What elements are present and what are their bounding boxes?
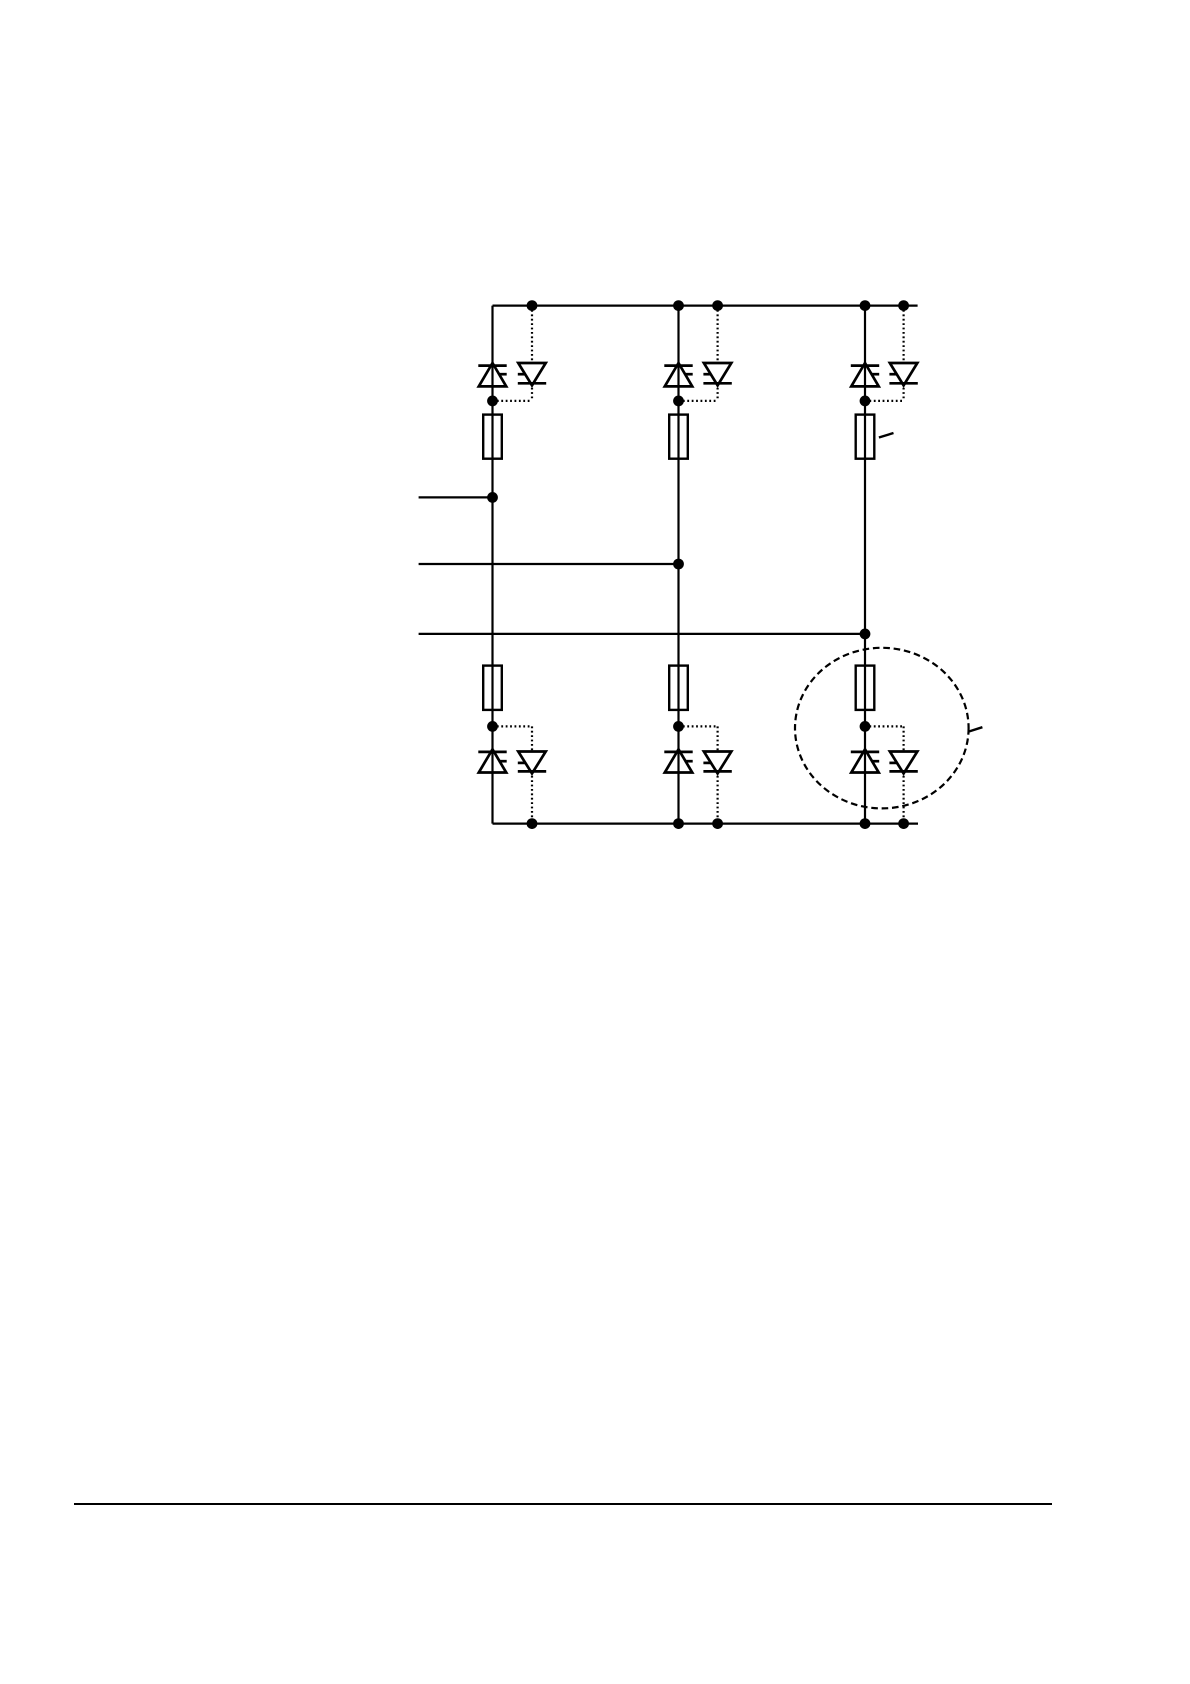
wire: dotted link V6R cathode to bottom bus (716, 771, 718, 823)
wire: AC phase input L1 (419, 496, 493, 498)
fuse F32 (lower arm leg 3) (856, 666, 875, 710)
node: bottom bus dot at reverse branch V4R (527, 818, 538, 829)
node: bottom bus dot at leg 2 (673, 818, 684, 829)
wire: dotted link across to junction dot of V3 (679, 400, 718, 402)
fuse F11 (upper arm leg 1) (483, 415, 502, 459)
wire: phase leg 2 vertical (677, 306, 679, 824)
thyristor V2 (851, 749, 879, 772)
highlight: dashed circle around optional reverse element module (795, 648, 969, 809)
thyristor V2R (optional antiparallel, dotted branch) (889, 752, 917, 774)
node: junction dot below V3 (673, 396, 684, 407)
footer rule (74, 1503, 1052, 1505)
wire: top DC bus (C+) (493, 305, 918, 307)
thyristor V4R (optional antiparallel, dotted branch) (518, 752, 546, 774)
thyristor V3R (optional antiparallel, dotted branch) (703, 363, 731, 385)
node: bottom bus dot at reverse branch V2R (898, 818, 909, 829)
node: phase L2 junction dot (673, 559, 684, 570)
wire: dotted link V1R cathode down to junction level (531, 383, 533, 401)
wire: dotted link junction to reverse thyristor V6R (679, 725, 718, 727)
node: phase L3 junction dot (860, 629, 871, 640)
node: junction dot below fuse F32 (860, 721, 871, 732)
callout leader 2: module pointer (969, 727, 983, 731)
thyristor V3 (664, 363, 692, 386)
wire: AC phase input L3 (419, 633, 865, 635)
wire: AC phase input L2 (419, 563, 679, 565)
wire: bottom DC bus (C-) (493, 822, 919, 824)
node: top bus dot at reverse branch V3R (712, 300, 723, 311)
node: top bus dot at reverse branch V1R (527, 300, 538, 311)
wire: dotted link across to junction dot of V5 (865, 400, 904, 402)
thyristor V1 (478, 363, 506, 386)
fuse F22 (lower arm leg 2) (669, 666, 688, 710)
thyristor V6 (664, 749, 692, 772)
wire: dotted link V2R cathode to bottom bus (902, 771, 904, 823)
node: bottom bus dot at leg 3 (860, 818, 871, 829)
node: junction dot below fuse F12 (487, 721, 498, 732)
wire: dotted drop from top bus to reverse thyristor V5R (902, 306, 904, 363)
wire: dotted link V4R cathode to bottom bus (531, 771, 533, 823)
thyristor V5R (optional antiparallel, dotted branch) (889, 363, 917, 385)
fuse F21 (upper arm leg 2) (669, 415, 688, 459)
wire: dotted drop to V6R anode (716, 726, 718, 751)
node: bottom bus dot at reverse branch V6R (712, 818, 723, 829)
wire: dotted link junction to reverse thyristor V2R (865, 725, 904, 727)
node: junction dot below fuse F22 (673, 721, 684, 732)
wire: dotted link junction to reverse thyristor V4R (493, 725, 533, 727)
wire: phase leg 1 vertical (491, 306, 493, 824)
fuse F31 (upper arm leg 3) (856, 415, 875, 459)
thyristor V1R (optional antiparallel, dotted branch) (518, 363, 546, 385)
thyristor V4 (478, 749, 506, 772)
node: junction dot below V1 (487, 396, 498, 407)
wire: dotted drop from top bus to reverse thyristor V3R (716, 306, 718, 363)
wire: dotted drop to V2R anode (902, 726, 904, 751)
node: top bus dot at leg 3 (860, 300, 871, 311)
wire: dotted link V3R cathode down to junction level (716, 383, 718, 401)
wire: phase leg 3 vertical (864, 306, 866, 824)
thyristor V6R (optional antiparallel, dotted branch) (703, 752, 731, 774)
wire: dotted drop to V4R anode (531, 726, 533, 751)
callout leader 1: fuse pointer (879, 433, 894, 438)
thyristor V5 (851, 363, 879, 386)
node: top bus dot at leg 2 (673, 300, 684, 311)
wire: dotted link V5R cathode down to junction level (902, 383, 904, 401)
wire: dotted drop from top bus to reverse thyristor V1R (531, 306, 533, 363)
node: junction dot below V5 (860, 396, 871, 407)
node: phase L1 junction dot (487, 492, 498, 503)
wire: dotted link across to junction dot of V1 (493, 400, 533, 402)
fuse F12 (lower arm leg 1) (483, 666, 502, 710)
node: top bus dot at reverse branch V5R (898, 300, 909, 311)
